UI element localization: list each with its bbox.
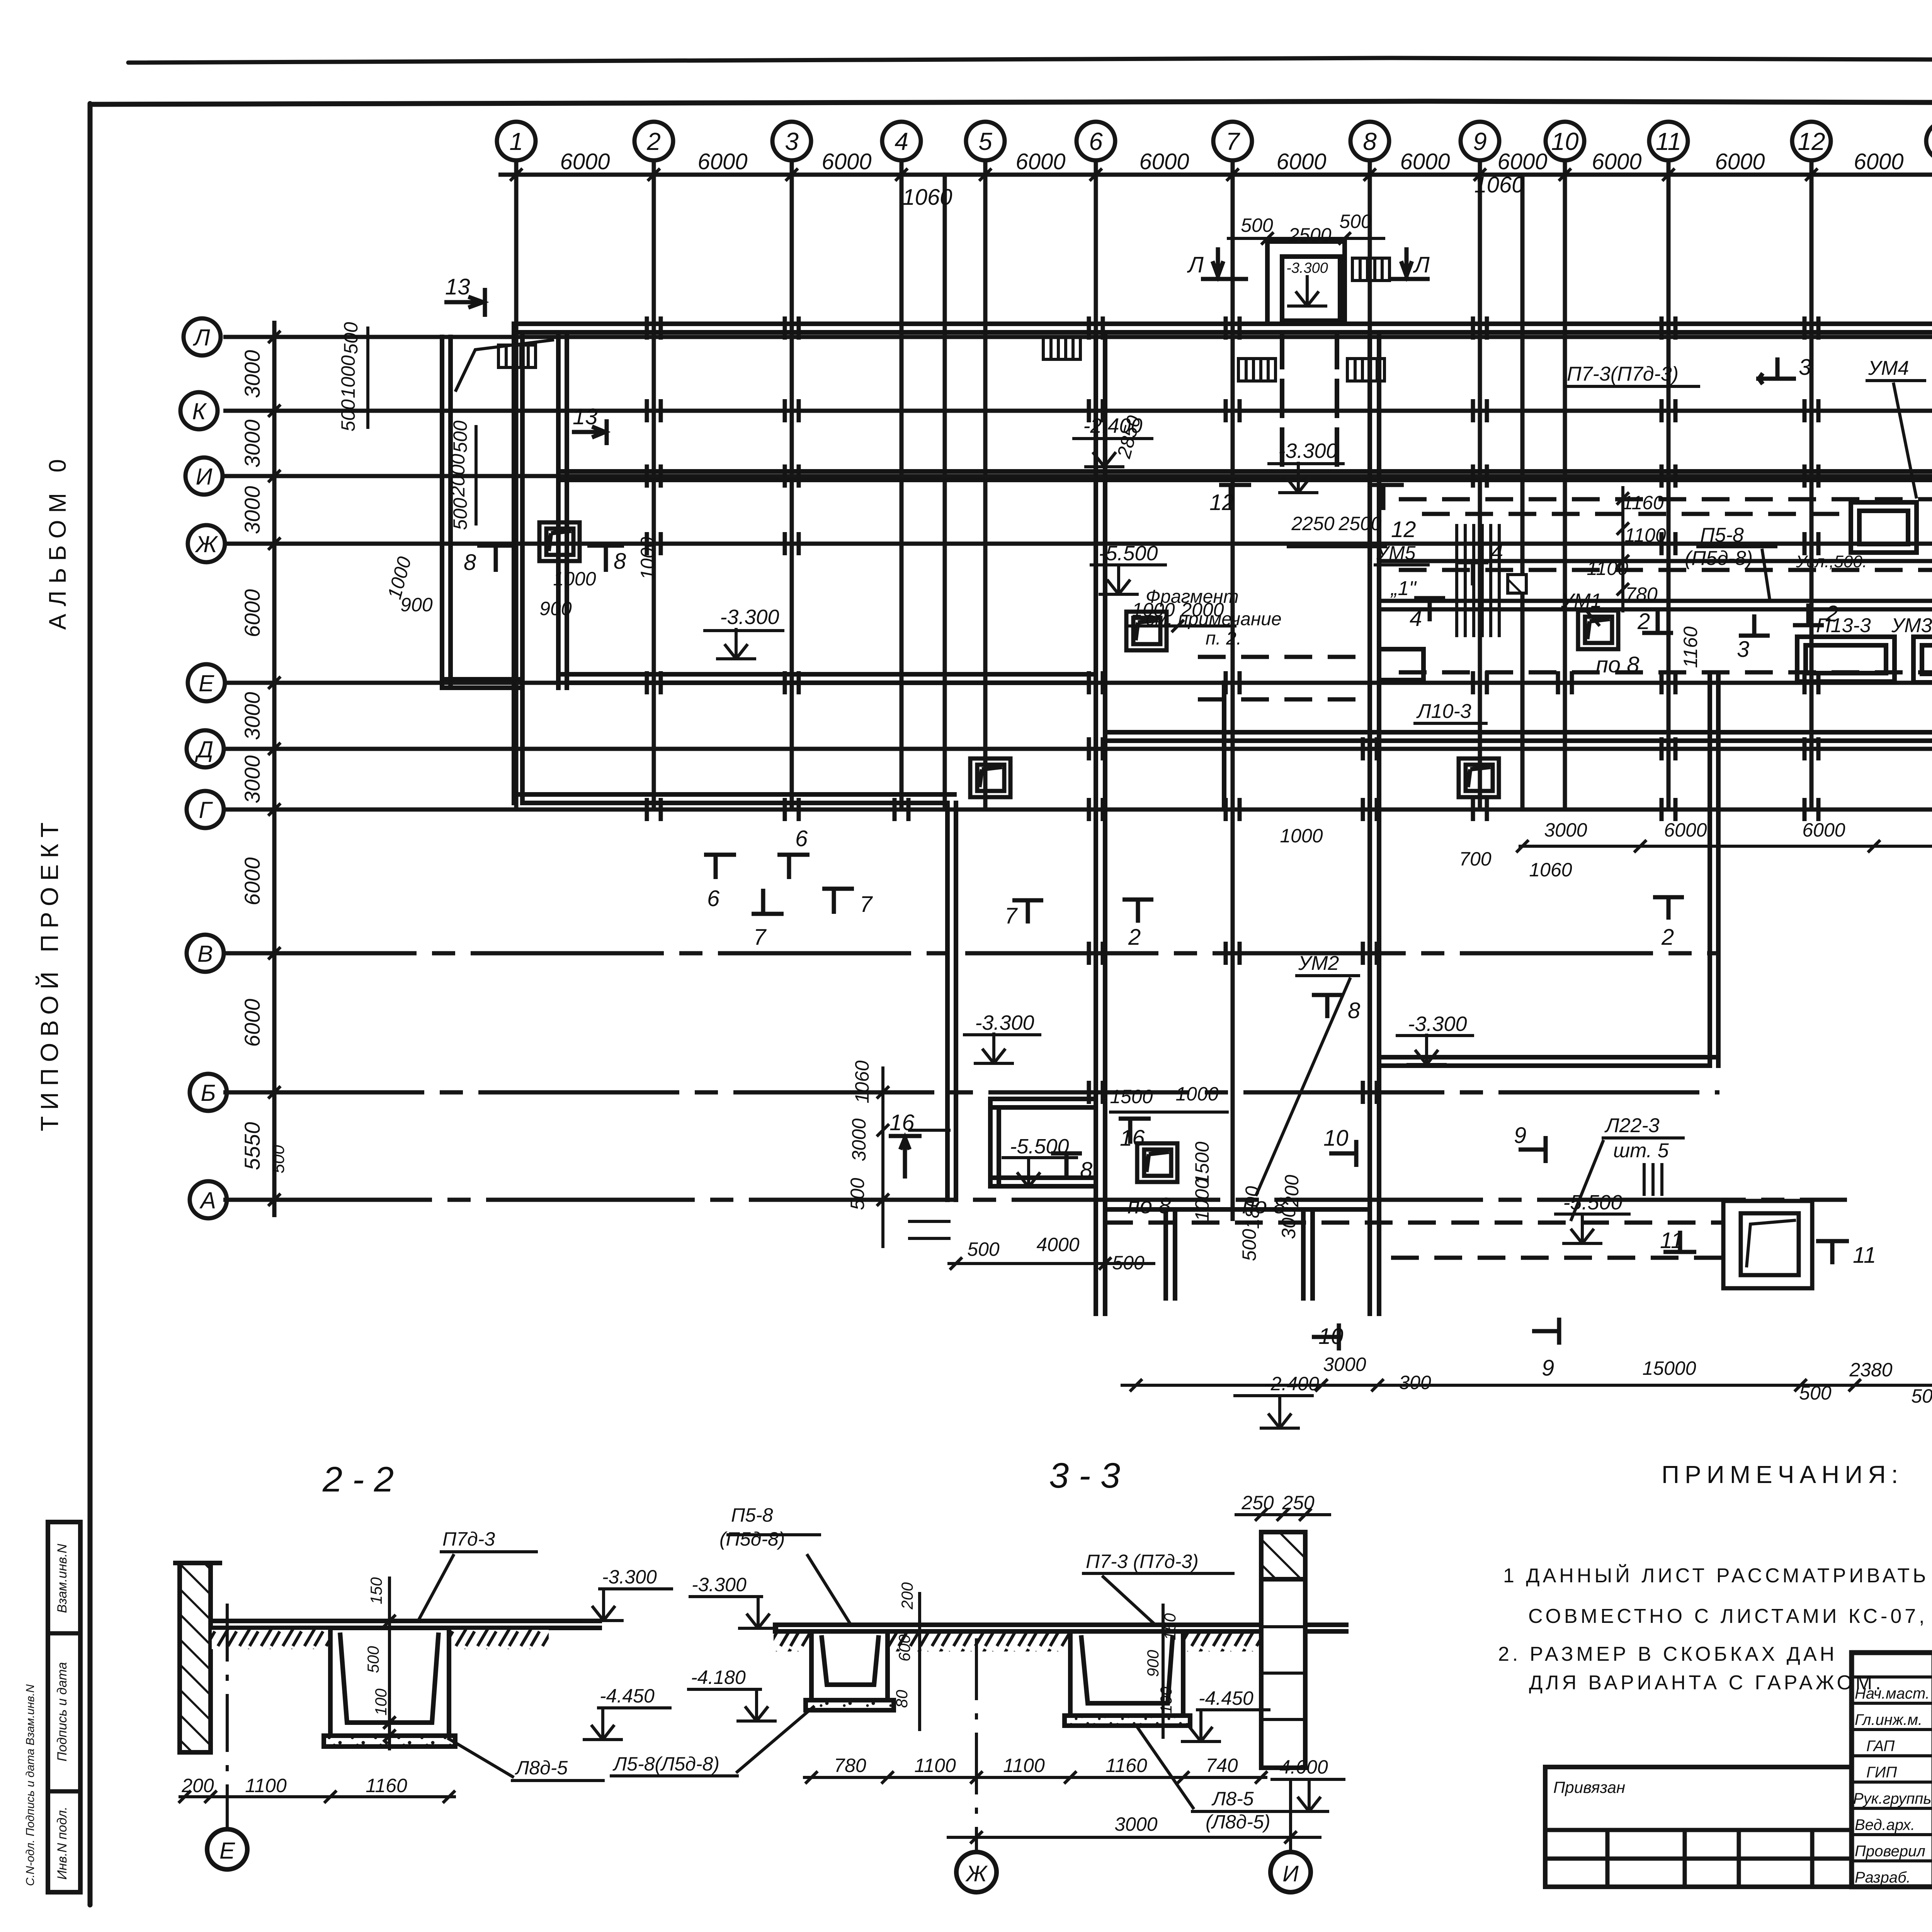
flag 2 b [1793,623,1824,628]
row A channel dashed top [1105,1221,1723,1225]
svg-text:6000: 6000 [1664,819,1707,841]
s33 right channel [1070,1634,1183,1716]
svg-text:12: 12 [1391,517,1416,542]
channel c1 [1381,599,1932,603]
svg-text:1500: 1500 [1191,1141,1213,1184]
pit row A mid [1723,1201,1812,1288]
UM4 box [1851,502,1917,553]
svg-text:ГАП: ГАП [1866,1738,1895,1755]
svg-text:200: 200 [1281,1175,1303,1207]
svg-text:8: 8 [464,550,476,575]
svg-text:2: 2 [1661,925,1674,950]
stamp strip box [48,1522,80,1892]
svg-text:1000: 1000 [1175,1083,1218,1105]
svg-text:Привязан: Привязан [1553,1778,1625,1796]
svg-text:780: 780 [834,1755,866,1776]
svg-text:11: 11 [1660,1228,1683,1253]
dashed channel b [1399,568,1932,572]
svg-text:Рук.группы: Рук.группы [1853,1790,1932,1807]
bubble 11 [1649,122,1688,160]
row line A [223,1198,1847,1202]
annex table [1545,1767,1852,1887]
svg-text:1 ДАННЫЙ ЛИСТ РАССМАТРИВАТЬ: 1 ДАННЫЙ ЛИСТ РАССМАТРИВАТЬ [1503,1564,1929,1587]
flag 6 b [787,855,791,879]
svg-text:740: 740 [1206,1755,1238,1776]
flag L right [1388,277,1430,281]
s33 elev -3.300 a [598,1587,673,1590]
s33 L8-5 leader [1191,1810,1290,1813]
svg-text:(Л8д-5): (Л8д-5) [1206,1811,1270,1833]
svg-text:Г: Г [199,797,213,823]
svg-text:П5-8: П5-8 [731,1504,773,1526]
svg-text:150: 150 [367,1577,385,1604]
svg-text:(П5д-8): (П5д-8) [719,1528,785,1550]
svg-text:П13-3: П13-3 [1816,614,1871,637]
svg-text:1160: 1160 [1680,626,1701,668]
bubble 7 [1213,122,1252,160]
svg-text:6000: 6000 [697,149,747,174]
column line 1 [514,160,519,811]
s33 dim 250 250 [1235,1513,1331,1516]
flag 2 c [1653,895,1684,900]
svg-text:7: 7 [753,925,767,950]
svg-text:Е: Е [199,670,214,696]
svg-text:П7-3(П7д-3): П7-3(П7д-3) [1567,363,1679,385]
column line 6 [1094,160,1098,1271]
frame top border [90,101,1932,104]
s22 wall hatched [180,1563,211,1752]
svg-text:300: 300 [1278,1207,1299,1239]
s22 floor slab [211,1619,602,1623]
svg-text:900: 900 [1144,1650,1162,1677]
flag 7 c [1012,898,1043,903]
svg-text:500: 500 [847,1178,868,1210]
column line 4 [900,160,904,811]
svg-text:3000: 3000 [1114,1813,1157,1835]
row bubble B [190,1074,227,1111]
svg-text:1160: 1160 [1105,1755,1147,1776]
solid Zh wall [1379,559,1932,563]
s22 channel slab [324,1736,455,1747]
bubble 5 [966,122,1005,160]
left outer channel wall [440,337,444,688]
svg-text:16: 16 [1120,1126,1145,1151]
stair lines block [1455,526,1458,636]
svg-text:Л5-8(Л5д-8): Л5-8(Л5д-8) [612,1753,719,1775]
column line 11 [1667,160,1671,811]
s33 dim 3000 [947,1836,1321,1839]
dim left top chain2 [474,425,478,526]
mid-right room right wall [1708,676,1712,1066]
lower band wall [1105,730,1932,735]
svg-text:13: 13 [445,274,470,299]
svg-text:3000: 3000 [848,1118,870,1161]
svg-text:ПРИМЕЧАНИЯ:: ПРИМЕЧАНИЯ: [1662,1461,1903,1488]
svg-text:Л10-3: Л10-3 [1416,700,1471,723]
row bubble I [185,457,223,495]
svg-text:150: 150 [1161,1613,1179,1640]
svg-text:4000: 4000 [1036,1234,1079,1255]
svg-text:500: 500 [449,420,471,453]
row line I [223,474,1932,478]
s33 elev -4.600 [1270,1778,1345,1781]
left fragment dashed2 [1198,697,1370,702]
stub below A col8L [1301,1209,1306,1298]
svg-text:500: 500 [364,1646,382,1673]
dim 2250/2500 [1287,545,1387,548]
svg-text:1000: 1000 [337,355,359,398]
flag 13 top [444,300,485,304]
svg-text:8: 8 [1348,998,1360,1023]
s33 elev -3.300 b [689,1595,763,1598]
comb col6 top [1043,337,1080,359]
svg-text:900: 900 [539,598,572,619]
s33 elev -4.180 [687,1688,762,1691]
row bubble A [190,1181,227,1218]
section cut flags [444,247,1932,1350]
svg-text:4: 4 [1410,606,1422,631]
svg-text:-3.300: -3.300 [692,1574,747,1595]
svg-text:-4.450: -4.450 [600,1685,655,1707]
svg-text:УМ2: УМ2 [1298,952,1339,975]
svg-text:3000: 3000 [1544,819,1587,841]
svg-text:А: А [199,1187,216,1213]
svg-text:-3.300: -3.300 [975,1011,1034,1034]
svg-text:СОВМЕСТНО С ЛИСТАМИ КС-07,: СОВМЕСТНО С ЛИСТАМИ КС-07, КС-08. [1528,1605,1932,1628]
svg-text:Б: Б [201,1080,216,1106]
flag 3 low [1739,634,1770,638]
svg-text:2250: 2250 [1291,513,1334,534]
svg-text:10: 10 [1318,1324,1344,1349]
comb left wall [498,345,536,367]
flag 8 left [477,544,514,548]
flag 7 a [761,889,765,914]
svg-text:Е: Е [219,1838,235,1864]
dashed channel a2 [1422,512,1851,516]
svg-text:3: 3 [785,128,799,155]
svg-text:6000: 6000 [1139,149,1189,174]
bubble 4 [882,122,921,160]
svg-text:80: 80 [893,1690,911,1708]
s33 ground hatch [774,1634,811,1651]
column line 2 [652,160,656,811]
svg-text:Ж: Ж [965,1861,988,1886]
column offset line 4a [943,176,947,808]
svg-text:1060: 1060 [851,1060,873,1103]
svg-text:2380: 2380 [1849,1359,1892,1381]
row bubble G [187,791,224,828]
svg-text:2500: 2500 [1288,224,1331,246]
svg-text:2: 2 [646,128,661,155]
svg-text:К: К [192,398,207,424]
flag 10 b [1312,1335,1339,1339]
elevator shaft inner [1282,257,1340,321]
stamp strip divider 1 [48,1631,80,1636]
channel col4a [945,803,950,1200]
flag 12 a [1229,485,1233,510]
svg-text:500: 500 [1241,214,1273,236]
row bubble L [184,318,221,355]
UM3 box [1913,637,1932,682]
staff/name column divider [1932,1653,1932,1887]
s22 P7d-3 leader [440,1550,538,1553]
flag 4 b [1458,560,1488,565]
svg-text:1060: 1060 [1529,859,1572,881]
row I internal wall [558,469,1932,474]
svg-text:6000: 6000 [821,149,871,174]
svg-text:3000: 3000 [240,486,264,534]
row line K [223,409,1932,413]
building top wall [514,321,1932,326]
svg-text:15000: 15000 [1642,1357,1696,1379]
svg-text:500: 500 [449,498,471,530]
svg-text:2000: 2000 [1180,599,1224,621]
dim bottom chain [1121,1384,1932,1387]
svg-text:10: 10 [1551,128,1579,155]
svg-text:1: 1 [509,128,523,155]
svg-text:3000: 3000 [240,420,264,468]
s33 dim line [803,1776,1267,1779]
plan text labels [1146,357,1932,1221]
svg-text:6000: 6000 [240,857,264,906]
column line 10 [1563,160,1567,811]
svg-text:по 8: по 8 [1596,652,1639,677]
s22 vert dims [388,1577,391,1750]
row line Zh [223,542,1932,546]
svg-text:(П5д-8): (П5д-8) [1685,547,1753,570]
dim 3000-6000-6000 [1519,845,1932,848]
svg-text:600: 600 [895,1634,913,1662]
svg-text:Л: Л [1413,252,1430,277]
chain side lines [908,1129,951,1132]
left outer channel caps [442,677,522,682]
svg-text:шт. 5: шт. 5 [1613,1139,1669,1162]
svg-text:-5.500: -5.500 [1099,542,1158,565]
flag 16 b [1128,1119,1133,1144]
svg-text:900: 900 [400,594,433,616]
svg-text:-4.180: -4.180 [691,1667,746,1688]
left fragment dashed [1198,655,1370,659]
s33 bubble Zh [956,1852,997,1892]
dim ticks [510,168,522,181]
svg-text:Инв.N подл.: Инв.N подл. [55,1806,70,1879]
flag 8 d [1312,993,1343,997]
s22 channel inner [340,1633,439,1723]
pit box -5.500 [990,1097,1096,1101]
svg-text:-3.300: -3.300 [1408,1012,1467,1036]
svg-text:500: 500 [967,1238,1000,1260]
svg-text:1160: 1160 [1622,492,1664,514]
flag 2 a [1642,631,1673,635]
column line 5 [983,160,988,811]
svg-text:3000: 3000 [1323,1354,1366,1375]
flag 12 b [1381,485,1386,510]
dashed channel d [1399,670,1932,675]
svg-text:9: 9 [1473,128,1487,155]
bubble 6 [1077,122,1115,160]
svg-text:С.N-одл. Подпись и дата Взам: С.N-одл. Подпись и дата Взам.инв.N [24,1684,37,1886]
row bubble Zh [188,525,225,562]
svg-text:7: 7 [1005,903,1018,929]
flag 13 inner [572,430,607,434]
svg-text:12: 12 [1798,128,1825,155]
column line 8 [1368,160,1372,1271]
svg-text:В: В [197,941,213,967]
row A channel dashed bottom [1391,1256,1723,1260]
svg-text:1000: 1000 [1191,1178,1213,1221]
flag 2 d [1122,898,1153,902]
P13-3 box [1797,637,1895,682]
dim chain 1160-1100-1100-780 [1621,486,1624,612]
row line D [223,747,1932,751]
svg-text:П7д-3: П7д-3 [442,1528,495,1550]
svg-text:1100: 1100 [914,1755,956,1776]
row bubble K [180,392,218,429]
s33 FS5 column [1261,1532,1305,1768]
svg-text:6: 6 [707,886,720,911]
svg-text:3000: 3000 [240,692,264,740]
row E internal wall [558,672,1096,677]
svg-text:6000: 6000 [240,589,264,638]
row bubble E [188,664,225,701]
shaft wall left below [1280,332,1284,476]
svg-text:1160: 1160 [366,1775,407,1796]
bubble 13 [1926,122,1932,160]
svg-text:Д: Д [195,736,213,762]
svg-text:300: 300 [1399,1372,1431,1393]
s33 elev -4.450 a [597,1706,672,1709]
bubble 8 [1350,122,1389,160]
row bubble V [187,935,224,972]
svg-text:-3.300: -3.300 [1278,439,1337,463]
s33 left channel [811,1634,888,1700]
svg-text:Взам.инв.N: Взам.инв.N [55,1544,70,1613]
bubble 2 [634,122,673,160]
svg-text:500: 500 [1911,1385,1932,1407]
svg-text:ДЛЯ ВАРИАНТА С ГАРАЖОМ.: ДЛЯ ВАРИАНТА С ГАРАЖОМ. [1529,1672,1884,1694]
staff row lines [1852,1675,1932,1679]
plan dimension texts [269,211,1932,1407]
svg-text:6000: 6000 [1400,149,1450,174]
svg-text:13: 13 [573,404,598,429]
pit row G col8 [1459,759,1499,797]
svg-text:6000: 6000 [560,149,610,174]
s22 ground hatch [212,1630,330,1649]
svg-text:Проверил: Проверил [1855,1843,1925,1860]
svg-text:П7-3 (П7д-3): П7-3 (П7д-3) [1086,1551,1199,1572]
svg-text:3 - 3: 3 - 3 [1049,1456,1120,1495]
svg-text:2. РАЗМЕР В СКОБКАХ ДАН: 2. РАЗМЕР В СКОБКАХ ДАН [1498,1643,1837,1665]
channels row Zh-E right part (dashed) [1105,499,1932,1258]
col7 wall E-G [1222,683,1226,808]
svg-text:250: 250 [1241,1492,1274,1514]
top sheet edge line [128,58,1932,63]
svg-text:780: 780 [1625,583,1658,605]
elevator shaft outer [1267,241,1345,324]
row line V [223,951,1719,956]
svg-text:АЛЬБОМ 0: АЛЬБОМ 0 [44,452,71,630]
s33 vert dims [918,1592,921,1731]
row bubble D [187,730,224,767]
L10-3 step [1379,649,1423,680]
svg-text:2: 2 [1637,609,1650,634]
dim left top chain [366,327,369,429]
svg-text:3: 3 [1737,637,1749,662]
shaft wall right below [1335,332,1339,476]
flag 3 um4 [1756,377,1796,381]
s33 L5-8 leader [610,1774,739,1777]
svg-text:5: 5 [978,128,992,155]
svg-text:Гл.инж.м.: Гл.инж.м. [1855,1711,1922,1728]
svg-text:п. 2.: п. 2. [1206,628,1242,649]
svg-text:12: 12 [1209,490,1235,515]
svg-text:„1": „1" [1390,577,1417,600]
channel col6 [1094,332,1098,1314]
dim col4 chain [881,1066,884,1248]
s33 bubble I [1270,1852,1311,1892]
row line L [223,335,1932,339]
svg-text:6000: 6000 [1802,819,1845,841]
svg-text:100: 100 [1157,1686,1175,1714]
svg-text:100: 100 [372,1688,390,1716]
svg-text:6000: 6000 [240,999,264,1047]
svg-text:УМ3: УМ3 [1891,614,1932,637]
svg-text:200: 200 [898,1582,916,1610]
svg-text:1000: 1000 [1280,825,1323,847]
bubble 3 [772,122,811,160]
flag 6 a [714,855,718,879]
s22 bubble E [207,1829,247,1869]
svg-text:3000: 3000 [240,755,264,804]
svg-text:500: 500 [1238,1229,1260,1261]
pit row G col6 [970,759,1010,797]
svg-text:6: 6 [795,826,808,851]
comb shaft left [1238,359,1276,381]
comb elevator right [1352,258,1389,281]
svg-text:1000: 1000 [637,537,658,580]
svg-text:П5-8: П5-8 [1700,524,1744,546]
frame left border [88,104,93,1905]
pit row Zh col1 [539,522,580,561]
svg-text:И: И [1282,1861,1299,1886]
svg-text:700: 700 [1459,848,1492,870]
dim 500-4000-500 [947,1262,1155,1265]
svg-text:4: 4 [895,128,908,155]
svg-text:6000: 6000 [1715,149,1765,174]
svg-text:-3.300: -3.300 [1286,260,1328,276]
s33 axes [975,1638,978,1851]
flag 7 b [832,889,836,914]
svg-text:2 - 2: 2 - 2 [322,1460,394,1499]
svg-text:6000: 6000 [1497,149,1547,174]
svg-text:1100: 1100 [1624,524,1666,546]
s22 channel outer [330,1630,449,1736]
svg-text:250: 250 [1282,1492,1315,1514]
flag 11 b [1816,1239,1849,1243]
pit col7 row E [1126,612,1167,650]
svg-text:УМ1: УМ1 [1561,590,1602,612]
column offset line 9a [1520,176,1525,808]
flag 8 right [587,544,624,548]
column line 9 [1478,160,1482,811]
svg-text:Подпись и дата: Подпись и дата [55,1662,70,1761]
svg-text:Усл.,500.: Усл.,500. [1796,552,1867,571]
svg-text:-5.500: -5.500 [1563,1191,1622,1214]
hatch square marker [1508,575,1526,593]
dim 1500-1000 [1109,1111,1229,1114]
svg-text:7: 7 [1226,128,1240,155]
svg-text:6000: 6000 [1015,149,1065,174]
